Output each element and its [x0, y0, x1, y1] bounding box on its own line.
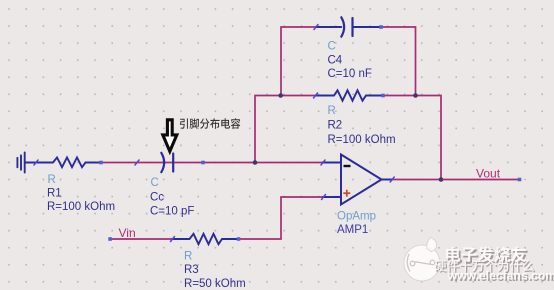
svg-text:Vout: Vout — [476, 167, 501, 181]
svg-text:R3: R3 — [184, 264, 199, 276]
svg-text:C=10 nF: C=10 nF — [328, 68, 372, 80]
svg-text:R1: R1 — [47, 188, 62, 200]
svg-text:OpAmp: OpAmp — [337, 211, 376, 223]
svg-text:C=10 pF: C=10 pF — [150, 205, 194, 217]
svg-text:C4: C4 — [328, 54, 343, 66]
svg-text:R=100 kOhm: R=100 kOhm — [328, 134, 396, 146]
svg-text:www.elecfans.com: www.elecfans.com — [447, 269, 554, 283]
svg-text:R=50 kOhm: R=50 kOhm — [184, 278, 246, 290]
svg-text:R2: R2 — [328, 119, 343, 131]
svg-text:Vin: Vin — [119, 226, 136, 240]
svg-text:AMP1: AMP1 — [337, 224, 368, 236]
svg-text:R: R — [328, 105, 336, 117]
svg-text:R: R — [48, 174, 56, 186]
svg-text:C: C — [328, 40, 336, 52]
svg-text:R=100 kOhm: R=100 kOhm — [47, 201, 115, 213]
svg-text:R: R — [184, 251, 192, 263]
svg-text:C: C — [151, 177, 159, 189]
svg-text:Cc: Cc — [150, 191, 164, 203]
